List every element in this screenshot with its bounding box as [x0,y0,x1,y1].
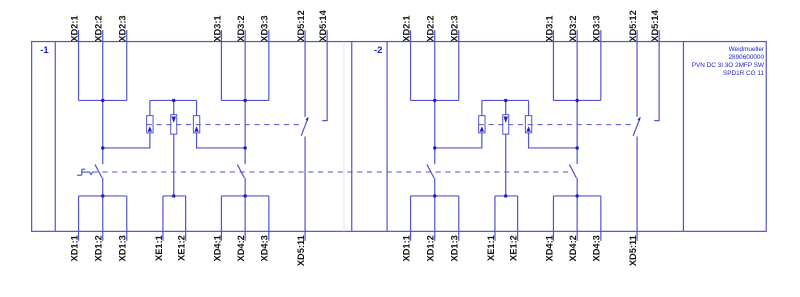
svg-text:XD2:2: XD2:2 [94,15,104,41]
dashed mechanical link upper block -2 [479,124,633,126]
wire right arrester bottom to node block -1 [197,133,246,148]
svg-text:XD4:3: XD4:3 [260,235,270,261]
wire XD4 bus block -1 [221,195,268,197]
svg-text:XD4:2: XD4:2 [236,235,246,261]
junction left node block -1 [101,146,104,149]
junction arrester bus block -1 [172,99,175,102]
wire left arrester top lead block -1 [149,100,151,115]
arrester F3 arrow up block -1 [194,126,198,131]
junction XD2 bus block -1 [101,99,104,102]
switch blade left disconnect block -2 [427,164,434,177]
svg-text:-1: -1 [40,45,49,56]
surge arrester F2 (gas discharge) box block -2 [503,115,509,134]
svg-text:XD5:12: XD5:12 [296,10,306,42]
wire XD5:12 lead block -2 [636,30,638,117]
svg-text:-2: -2 [374,45,382,56]
svg-text:XD2:1: XD2:1 [69,15,79,41]
svg-text:XD4:1: XD4:1 [212,235,222,261]
wire right arrester top lead block -2 [528,100,530,115]
inner vertical line block -2 [386,42,388,232]
wire XD2:3 lead block -1 [126,30,128,100]
wire XD3:2 lead / node line block -2 [576,30,578,164]
wire XE1 earth bus block -1 [163,195,186,197]
dashed mechanical link lower [93,171,569,173]
junction XE1 bus block -1 [172,194,175,197]
arrester F1 arrow up block -1 [148,126,152,131]
surge arrester F3 box block -1 [193,116,199,133]
divider between block -1 and block -2 [351,42,353,232]
svg-text:XD5:14: XD5:14 [318,9,328,41]
svg-text:XD3:1: XD3:1 [212,15,222,41]
wire XD2:3 lead block -2 [458,30,460,100]
changeover blade arrowhead block -1 [306,117,309,121]
wire XE1:2 lead block -2 [517,196,519,241]
surge arrester F1 box block -2 [479,116,485,133]
wire arrester top bus block -1 [150,99,197,101]
svg-text:XD3:3: XD3:3 [592,15,602,41]
wire XD1:1 lead block -1 [78,196,80,241]
junction XD1 bus block -2 [433,194,436,197]
wire node line lower left block -1 [102,178,104,241]
svg-text:XD5:14: XD5:14 [650,9,660,41]
svg-text:2890600000: 2890600000 [729,54,765,61]
svg-text:XD2:1: XD2:1 [401,15,411,41]
wire node line lower left block -2 [434,178,436,241]
wire XD2 bus block -2 [411,99,459,101]
svg-text:XD1:1: XD1:1 [401,235,411,261]
drawing frame outer rectangle [32,42,767,232]
changeover switch blade block -1 [301,118,308,136]
wire XD3 bus block -2 [553,99,600,101]
wire XD4:3 lead block -1 [268,196,270,241]
wire XD2:2 lead / node line block -2 [434,30,436,164]
svg-text:XD3:1: XD3:1 [544,15,554,41]
manual actuator symbol nub [82,168,86,170]
wire XD1 bus block -1 [79,195,127,197]
wire XE1:2 lead block -1 [185,196,187,241]
svg-text:XD1:1: XD1:1 [69,235,79,261]
switch blade right disconnect block -2 [569,164,576,177]
svg-text:XD3:2: XD3:2 [236,15,246,41]
svg-text:XD5:11: XD5:11 [296,235,306,266]
svg-text:Weidmueller: Weidmueller [729,46,765,53]
wire XD1 bus block -2 [411,195,459,197]
wire node line lower right block -2 [576,178,578,241]
junction XD3 bus block -1 [243,99,246,102]
wire XD3 bus block -1 [221,99,268,101]
svg-text:XD1:2: XD1:2 [426,235,436,261]
svg-text:XD3:3: XD3:3 [260,15,270,41]
svg-text:XD4:3: XD4:3 [592,235,602,261]
wire node line lower right block -1 [244,178,246,241]
svg-text:XE1:1: XE1:1 [486,235,496,261]
divider before title block [682,42,684,232]
wire XD3:2 lead / node line block -1 [244,30,246,164]
svg-text:XE1:1: XE1:1 [154,235,164,261]
svg-text:XD2:2: XD2:2 [426,15,436,41]
wire XD4 bus block -2 [553,195,600,197]
svg-text:SPD1R CG 11: SPD1R CG 11 [723,70,765,77]
manual actuator arrow notch [90,172,93,174]
svg-text:XD1:3: XD1:3 [118,235,128,261]
wire XD2 bus block -1 [79,99,127,101]
manual actuator symbol staff [81,169,83,175]
wire XD3:3 lead block -2 [600,30,602,100]
wire XD4:1 lead block -2 [552,196,554,241]
wire XE1:1 lead block -2 [494,196,496,241]
switch blade left disconnect block -1 [95,164,102,177]
svg-text:XD4:2: XD4:2 [568,235,578,261]
wire left arrester bottom to node block -1 [103,133,150,148]
wire XD5:11 lead / changeover common block -2 [636,136,638,240]
wire XD1:3 lead block -1 [126,196,128,241]
junction XD4 bus block -2 [575,194,578,197]
arrester F2 arrow down block -1 [172,116,176,123]
wire XE1 earth bus block -2 [495,195,518,197]
junction XD1 bus block -1 [101,194,104,197]
svg-text:XD5:11: XD5:11 [628,235,638,266]
svg-text:XD3:2: XD3:2 [568,15,578,41]
junction arrester bus block -2 [504,99,507,102]
wire XD2:2 lead / node line block -1 [102,30,104,164]
wire XE1:1 lead block -1 [162,196,164,241]
junction XD4 bus block -1 [243,194,246,197]
wire XD3:1 lead block -2 [552,30,554,100]
arrester F1 arrow up block -2 [480,126,484,131]
wire left arrester bottom to node block -2 [435,133,482,148]
surge arrester F1 box block -1 [147,116,153,133]
manual actuator symbol foot [77,174,82,176]
wire XD5:11 lead / changeover common block -1 [304,136,306,240]
svg-text:XD1:2: XD1:2 [94,235,104,261]
wire XD5:12 lead block -1 [304,30,306,117]
faint column separator [343,42,345,232]
svg-text:XD2:3: XD2:3 [118,15,128,41]
wire XD5:14 lead block -2 [654,30,659,121]
junction right node block -2 [575,146,578,149]
arrester F3 arrow up block -2 [526,126,530,131]
wire middle arrester to earth bus block -2 [505,134,507,196]
surge arrester F2 (gas discharge) box block -1 [171,115,177,134]
wire middle arrester to earth bus block -1 [173,134,175,196]
svg-text:XE1:2: XE1:2 [508,235,518,261]
junction right node block -1 [243,146,246,149]
wire left arrester top lead block -2 [481,100,483,115]
arrester F2 arrow down block -2 [504,116,508,123]
switch blade right disconnect block -1 [237,164,244,177]
wire XD1:1 lead block -2 [410,196,412,241]
manual actuator lead-in [82,171,90,173]
svg-text:XD1:3: XD1:3 [450,235,460,261]
wire middle arrester top lead block -2 [505,100,507,114]
junction XD2 bus block -2 [433,99,436,102]
wire XD2:1 lead block -2 [410,30,412,100]
changeover blade arrowhead block -2 [638,117,641,121]
wire XD4:1 lead block -1 [220,196,222,241]
svg-text:XD5:12: XD5:12 [628,10,638,42]
wire right arrester top lead block -1 [196,100,198,115]
svg-text:XD2:3: XD2:3 [450,15,460,41]
junction XD3 bus block -2 [575,99,578,102]
wire XD1:3 lead block -2 [458,196,460,241]
wire middle arrester top lead block -1 [173,100,175,114]
wire XD3:3 lead block -1 [268,30,270,100]
wire XD2:1 lead block -1 [78,30,80,100]
junction left node block -2 [433,146,436,149]
surge arrester F3 box block -2 [525,116,531,133]
wire XD5:14 lead block -1 [322,30,327,121]
inner vertical line block -1 [54,42,56,232]
junction XE1 bus block -2 [504,194,507,197]
svg-text:PVN DC 3I 3O 2MFP SW: PVN DC 3I 3O 2MFP SW [692,62,765,69]
wire arrester top bus block -2 [482,99,529,101]
dashed mechanical link upper block -1 [147,124,301,126]
changeover switch blade block -2 [633,118,640,136]
wire XD3:1 lead block -1 [220,30,222,100]
svg-text:XD4:1: XD4:1 [544,235,554,261]
wire right arrester bottom to node block -2 [529,133,578,148]
svg-text:XE1:2: XE1:2 [176,235,186,261]
wire XD4:3 lead block -2 [600,196,602,241]
